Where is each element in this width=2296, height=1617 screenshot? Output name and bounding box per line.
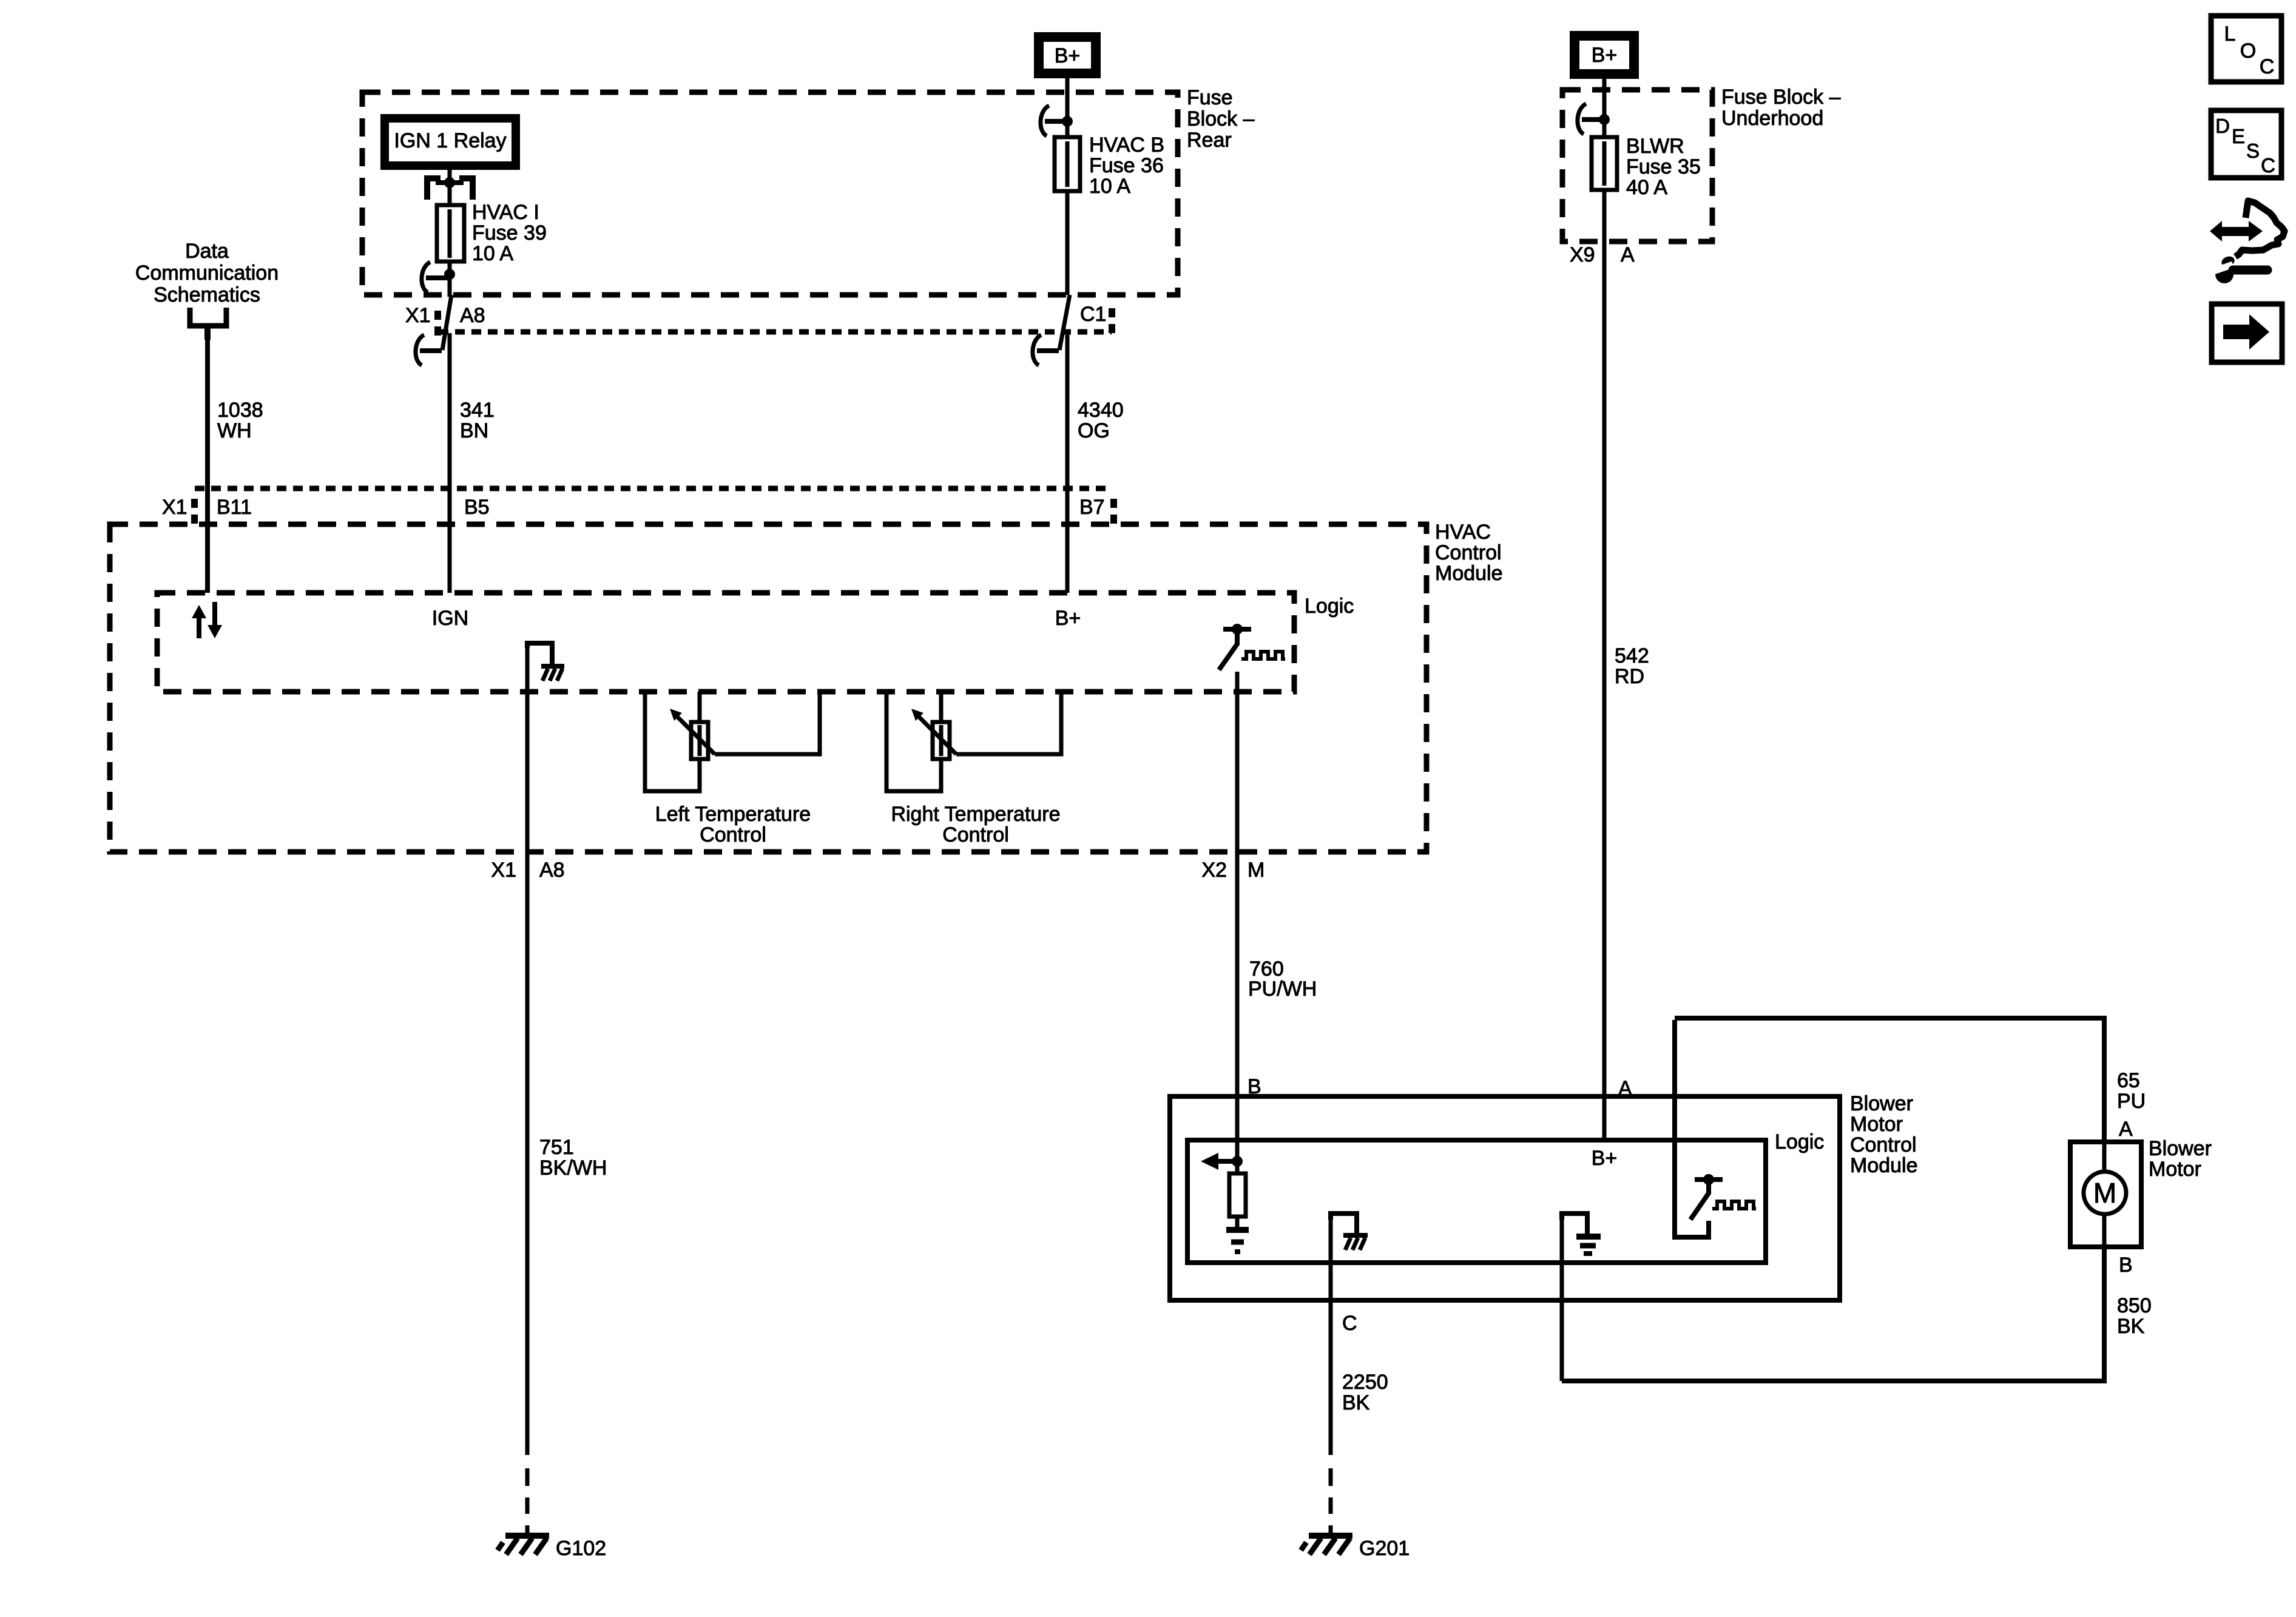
PWM signal symbol (HVAC) — [1241, 652, 1285, 659]
legend icon LOC — [2211, 16, 2281, 82]
PWM signal symbol (BMCM) — [1712, 1201, 1756, 1209]
wire jog through connector C1 — [1059, 295, 1070, 350]
HVAC internal ground symbol — [527, 643, 564, 681]
connector clip below A8 — [416, 335, 442, 365]
wire 65 PU (BMCM to blower motor) — [1675, 1018, 2104, 1142]
Blower Motor Control Module outer box — [1170, 1096, 1840, 1300]
HVAC logic dashed box — [157, 593, 1294, 692]
potentiometer: Right Temperature Control — [886, 692, 1061, 791]
svg-text:B+: B+ — [1592, 1147, 1618, 1170]
earth ground (BMCM input) — [1226, 1230, 1249, 1252]
earth ground (BMCM output return) — [1562, 1214, 1601, 1254]
pin label row X1 / A8 (HVAC bottom) — [491, 859, 1264, 882]
connector separator dots C1 — [1109, 308, 1115, 317]
fuse block - underhood dashed box — [1562, 90, 1712, 241]
svg-text:X9: X9 — [1570, 243, 1595, 266]
wire: motor return into BMCM — [1560, 1214, 1564, 1381]
svg-text:C: C — [2261, 154, 2275, 177]
fuse F36 HVAC B — [1055, 137, 1080, 295]
BMCM blower driver switch — [1690, 1174, 1723, 1220]
wire 341 BN — [448, 333, 452, 593]
wire 751 BK/WH (ground wire to G102) — [525, 643, 530, 1534]
potentiometer: Left Temperature Control — [645, 692, 820, 791]
node: Data Communication Schematics reference — [135, 240, 279, 340]
svg-text:X1: X1 — [491, 859, 516, 882]
svg-text:E: E — [2232, 125, 2245, 147]
HVAC blower driver switch — [1219, 624, 1251, 670]
relay K (IGN 1 Relay) — [385, 118, 516, 166]
svg-text:M: M — [2093, 1177, 2116, 1209]
fuse F39 HVAC I — [437, 205, 464, 297]
svg-text:C1: C1 — [1080, 303, 1106, 326]
wire 4340 OG — [1065, 333, 1070, 593]
svg-text:Logic: Logic — [1775, 1130, 1824, 1153]
svg-text:M: M — [1248, 859, 1264, 882]
blower motor M1 — [2070, 1142, 2141, 1247]
connector line (dotted) below fuse blocks — [439, 329, 1112, 335]
svg-text:B+: B+ — [1055, 607, 1081, 630]
legend icon: diagnostic hand/wrench — [2210, 201, 2284, 283]
connector clip below C1 — [1033, 335, 1059, 365]
svg-text:A: A — [2119, 1118, 2133, 1141]
connector line X1 (dotted) above HVAC control module — [195, 486, 1108, 491]
svg-text:G201: G201 — [1359, 1537, 1410, 1560]
svg-text:B: B — [2119, 1254, 2133, 1277]
BMCM logic box — [1187, 1140, 1766, 1263]
wire 1038 WH — [205, 335, 210, 593]
wire relay to fuse 39 — [448, 170, 452, 205]
svg-text:B11: B11 — [217, 496, 252, 519]
resistor R (input pull-down) — [1229, 1161, 1246, 1228]
wire 760 PU/WH — [1235, 672, 1240, 1161]
svg-text:S: S — [2246, 140, 2260, 162]
pin label row X1 / A8 — [405, 304, 485, 327]
connector clip and dot at fuse 35 input — [1578, 104, 1604, 134]
svg-text:Logic: Logic — [1305, 595, 1354, 618]
wire from B+ underhood to fuse 35 — [1602, 79, 1607, 137]
connector clip and dot at fuse 36 input — [1041, 106, 1067, 136]
svg-text:Fuse Block –Underhood: Fuse Block –Underhood — [1721, 86, 1841, 130]
junction bar and dot below relay — [436, 180, 464, 185]
svg-text:L: L — [2224, 22, 2236, 46]
legend icon: continue arrow — [2212, 304, 2282, 362]
input sense arrow and junction dot — [1201, 1153, 1243, 1170]
BMCM chassis ground symbol (wire C) — [1331, 1214, 1368, 1250]
svg-text:G102: G102 — [556, 1537, 606, 1560]
svg-text:X2: X2 — [1201, 859, 1227, 882]
power terminal B+ (rear) — [1039, 37, 1096, 73]
switch output hook wire — [1675, 1020, 1709, 1237]
svg-text:X1: X1 — [162, 496, 187, 519]
svg-text:B7: B7 — [1079, 496, 1105, 519]
power terminal B+ (underhood) — [1575, 36, 1634, 74]
svg-text:B+: B+ — [1592, 44, 1618, 67]
svg-text:IGN 1 Relay: IGN 1 Relay — [394, 129, 506, 152]
svg-text:C: C — [1342, 1312, 1357, 1335]
relay output terminal bracket — [427, 178, 473, 200]
svg-text:A8: A8 — [460, 304, 485, 327]
wire jog through connector X1 pin A8 — [442, 295, 451, 350]
svg-text:IGN: IGN — [432, 607, 468, 630]
svg-text:BlowerMotorControlModule: BlowerMotorControlModule — [1850, 1092, 1918, 1177]
legend icon DESC — [2211, 110, 2281, 178]
svg-text:A8: A8 — [539, 859, 565, 882]
pin label row X9 / A — [1570, 243, 1635, 266]
fuse block - rear dashed box — [362, 92, 1178, 295]
wire 2250 BK (ground wire to G201) — [1329, 1214, 1333, 1534]
junction dot at fuse 39 output — [444, 269, 455, 280]
connector separator dots X1/B11 — [191, 499, 198, 508]
svg-text:D: D — [2215, 115, 2230, 137]
svg-text:542RD: 542RD — [1615, 644, 1649, 688]
fuse F35 BLWR — [1592, 137, 1617, 241]
ground G102 — [498, 1536, 606, 1560]
connector clip at fuse 39 output — [422, 262, 450, 292]
HVAC Control Module dashed box — [110, 524, 1427, 852]
wire 850 BK (motor return) — [1562, 1247, 2104, 1381]
svg-text:B+: B+ — [1055, 44, 1081, 67]
svg-text:O: O — [2240, 39, 2256, 62]
svg-text:B5: B5 — [464, 496, 490, 519]
svg-text:C: C — [2260, 55, 2275, 78]
ground G201 — [1301, 1536, 1410, 1560]
pin label row X1 / B11 / B5 / B7 — [162, 496, 1105, 519]
svg-text:X1: X1 — [405, 304, 431, 327]
connector separator dots B7 — [1110, 499, 1117, 508]
wire 542 RD — [1602, 241, 1607, 1140]
wire from B+ rear to fuse 36 — [1065, 78, 1070, 137]
connector separator dots X1/A8 — [434, 311, 441, 320]
serial data up/down arrows — [192, 602, 222, 638]
svg-text:A: A — [1621, 243, 1635, 266]
